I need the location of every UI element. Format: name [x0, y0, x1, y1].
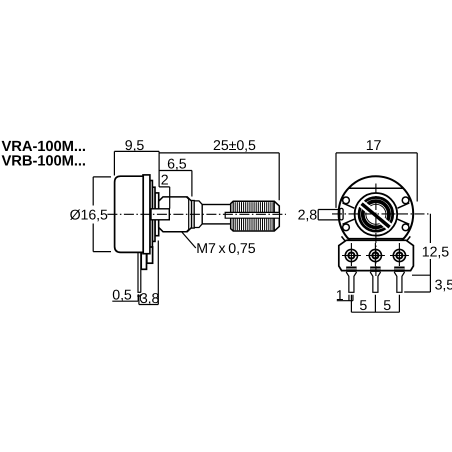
terminal A outer	[345, 249, 357, 261]
leg A	[346, 272, 356, 292]
dimension Ø16,5 bracket	[93, 177, 111, 252]
svg-text:2: 2	[161, 172, 169, 188]
terminal C dot	[398, 255, 400, 257]
shaft collar ring	[192, 201, 195, 229]
svg-text:17: 17	[366, 138, 382, 154]
can (body)	[115, 176, 144, 252]
rivet upper-left	[343, 197, 350, 204]
terminal C mid	[396, 253, 402, 259]
svg-text:12,5: 12,5	[422, 244, 449, 260]
dimension 9,5	[114, 151, 159, 175]
shaft ring outer	[359, 198, 393, 232]
base (phenolic)	[339, 240, 414, 270]
dimension 1	[337, 295, 353, 301]
pad slits	[346, 268, 404, 270]
leader M7x0,75	[182, 232, 196, 248]
dimension 2	[159, 187, 170, 209]
dimension 2,8 bracket	[318, 210, 339, 220]
knurl lines	[235, 202, 273, 230]
dimension 17	[336, 153, 417, 208]
svg-text:M7 x 0,75: M7 x 0,75	[196, 241, 255, 257]
svg-text:9,5: 9,5	[125, 138, 145, 154]
leg C	[394, 272, 404, 292]
centerline left view	[107, 213, 286, 215]
knurled shaft end	[231, 201, 280, 231]
dimension text 3,8	[141, 293, 157, 304]
lower chord line	[348, 238, 403, 240]
dimension 0,5	[112, 294, 141, 301]
shaft ring inner	[363, 201, 389, 227]
spoke lower-right	[398, 219, 410, 224]
flange plate	[143, 175, 150, 254]
spoke upper-right	[398, 203, 410, 208]
anti-rotation lug notch	[151, 209, 169, 220]
svg-text:3,8: 3,8	[140, 291, 160, 307]
solder pad C	[394, 267, 404, 272]
knurl end cap edges	[233, 202, 274, 231]
terminal A mid	[348, 253, 354, 259]
dimension text 12,5	[422, 245, 449, 258]
shaft slot (side view)	[225, 212, 279, 218]
dimension 5 5	[351, 295, 399, 312]
centerline front vertical	[375, 184, 377, 279]
dimension 6,5	[159, 171, 192, 197]
bushing M7 body	[159, 197, 192, 232]
plate P2	[150, 181, 153, 249]
svg-text:Ø16,5: Ø16,5	[70, 207, 108, 223]
terminal A dot	[350, 255, 352, 257]
dimension 3,8	[139, 241, 158, 305]
rivet lower-left	[343, 224, 350, 231]
shaft slot bar	[362, 204, 390, 227]
svg-text:25±0,5: 25±0,5	[213, 138, 256, 154]
boss circle	[355, 193, 398, 236]
svg-text:0,5: 0,5	[112, 287, 132, 303]
terminal lug T2 (middle, side view)	[141, 248, 146, 269]
corner cut lower-right	[405, 236, 410, 242]
shaft neck	[194, 201, 202, 228]
svg-text:3,5: 3,5	[435, 278, 452, 294]
terminal lug T3 (rear, side view)	[147, 247, 153, 263]
shaft end inner circle	[366, 204, 386, 224]
svg-text:VRB-100M...: VRB-100M...	[2, 154, 86, 170]
terminal center ticks	[342, 243, 409, 266]
terminal lug T1 (front, side view)	[138, 251, 141, 292]
rivet upper-right	[402, 197, 409, 204]
dimension 12,5 / 3,5 bracket	[404, 214, 430, 292]
svg-text:2,8: 2,8	[298, 208, 318, 224]
terminal B outer	[369, 249, 381, 261]
svg-text:5: 5	[359, 298, 367, 314]
centerline front horizontal	[332, 213, 430, 215]
terminal B dot	[374, 255, 376, 257]
leg B	[370, 272, 380, 292]
svg-text:1: 1	[336, 288, 344, 304]
corner cut lower-left	[342, 236, 347, 242]
side slot (2,8 notch)	[340, 208, 343, 220]
solder pad B	[370, 267, 380, 272]
svg-text:5: 5	[383, 298, 391, 314]
rivet lower-right	[402, 224, 409, 231]
terminal B mid	[372, 253, 378, 259]
spoke lower-left	[343, 219, 355, 224]
upper chord line	[349, 187, 404, 189]
svg-text:VRA-100M...: VRA-100M...	[2, 139, 86, 155]
dimension text Ø16,5	[72, 207, 107, 223]
terminal C outer	[393, 249, 405, 261]
body circle (can front)	[339, 176, 414, 251]
svg-text:6,5: 6,5	[167, 156, 187, 172]
bushing face edge	[186, 197, 188, 232]
plate P4 (bushing base plate)	[155, 193, 159, 236]
spoke upper-left	[343, 203, 355, 208]
plate P3	[152, 187, 155, 241]
shaft (plain section)	[202, 205, 231, 224]
dimension 25±0,5	[159, 151, 279, 200]
solder pad A	[346, 267, 356, 272]
shaft slot white band	[361, 203, 391, 228]
